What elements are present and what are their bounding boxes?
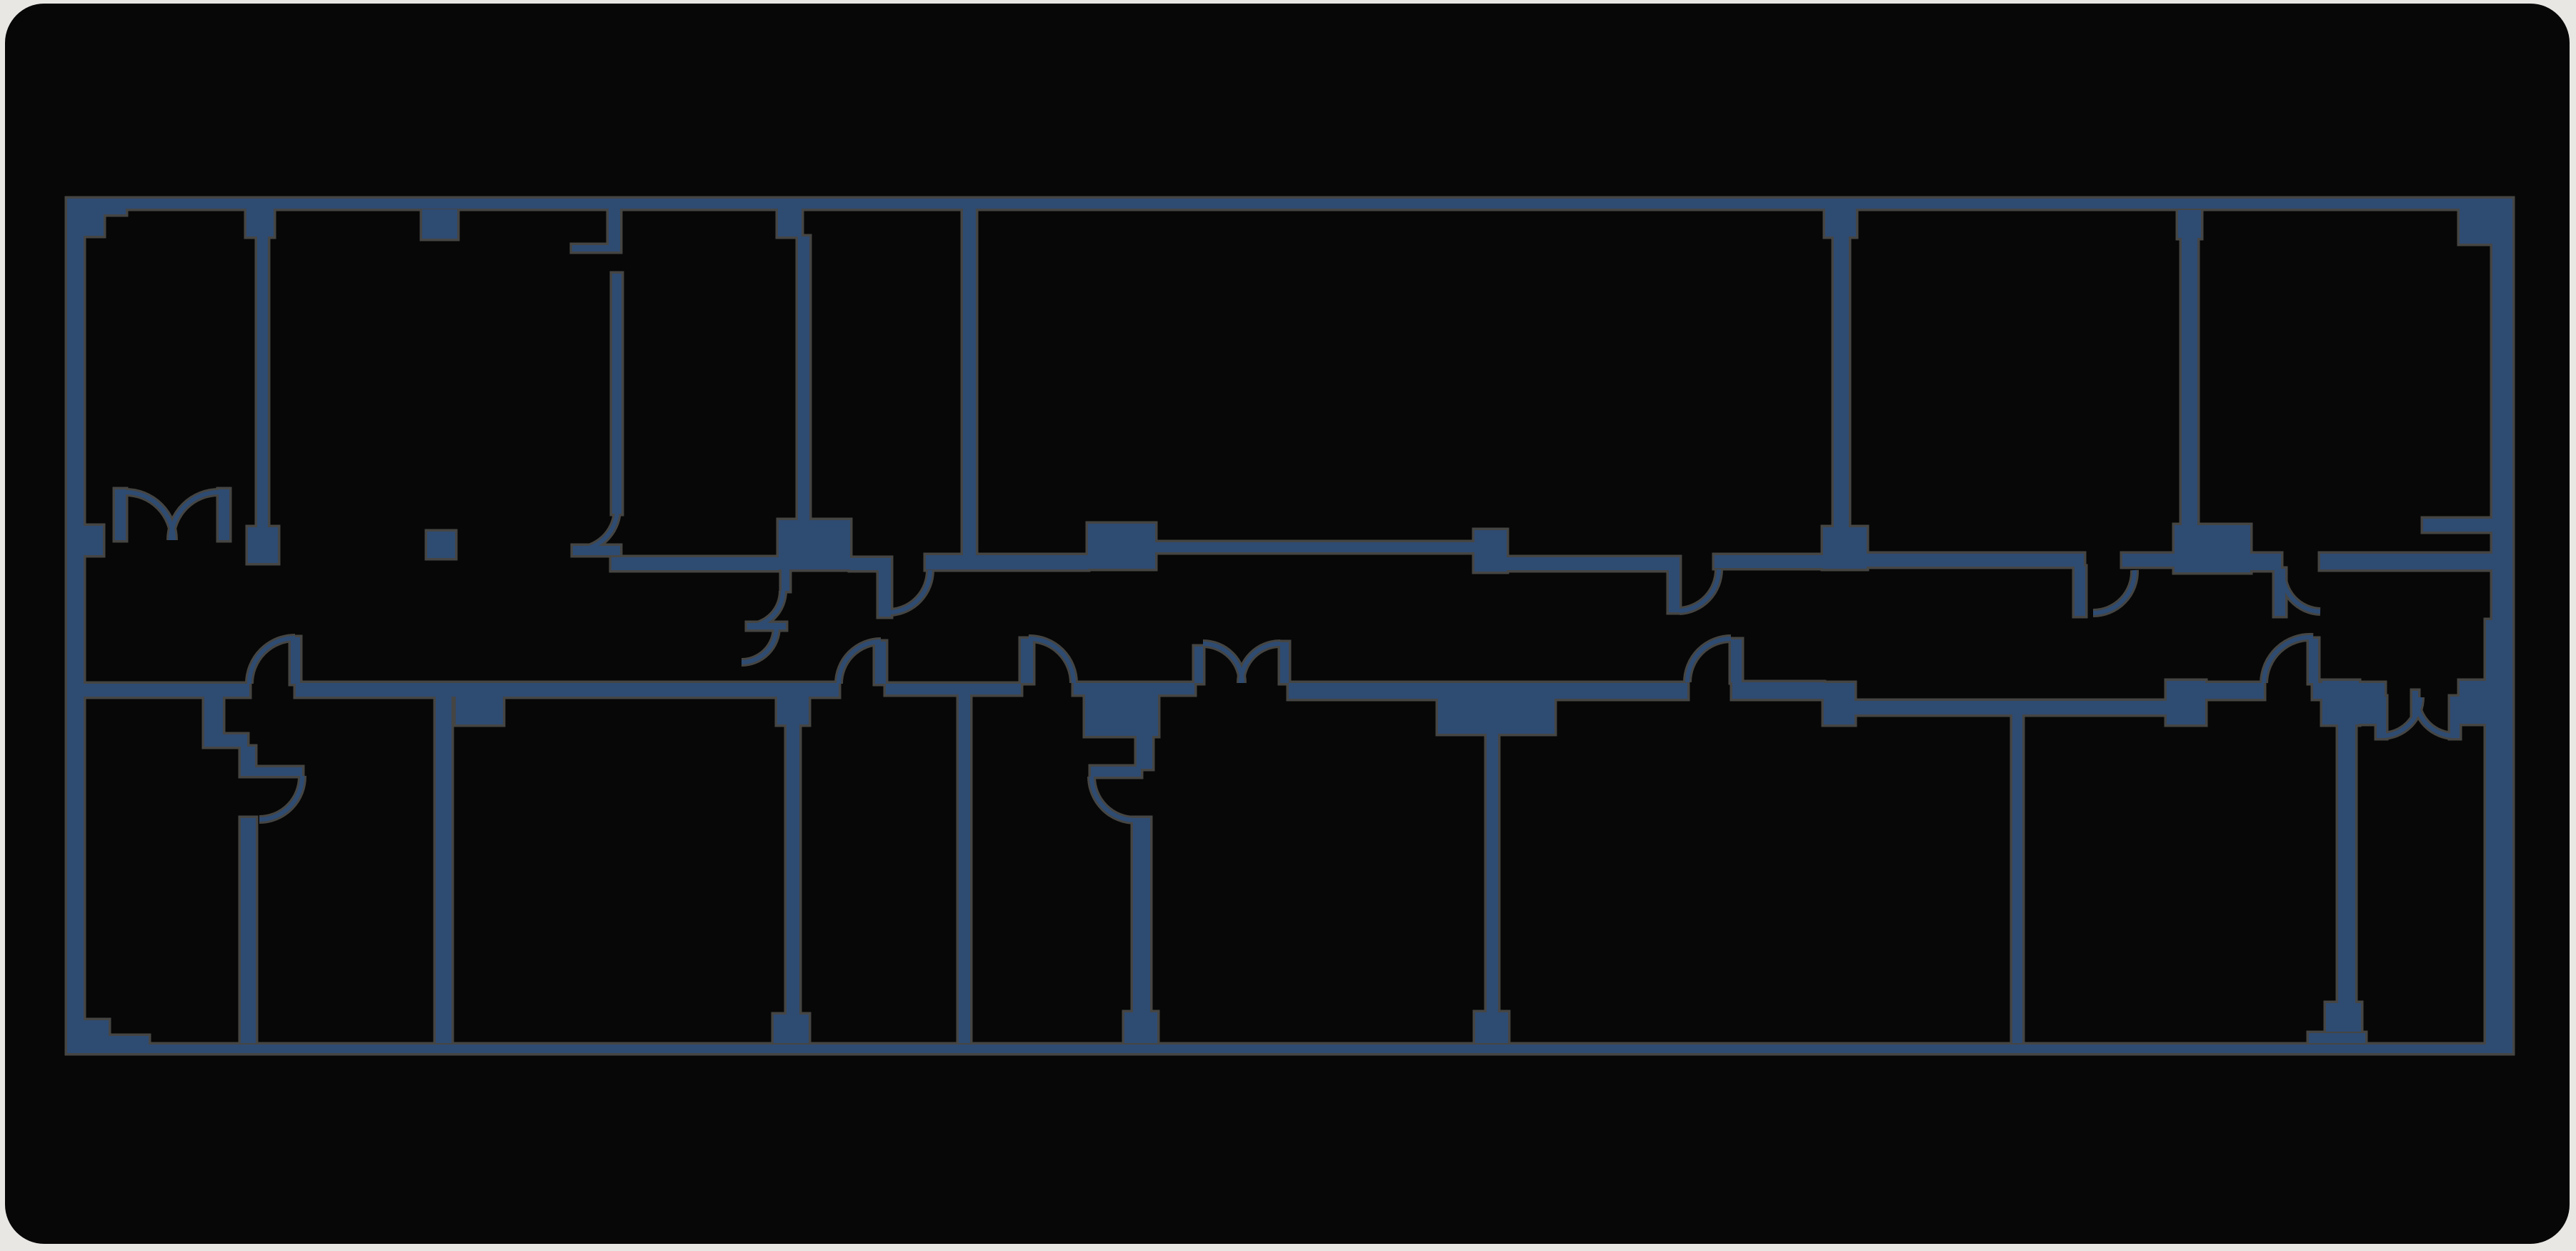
casing: vestibule V2 leaf bar bbox=[1091, 767, 1141, 777]
upper corridor wall E2 bbox=[2122, 554, 2175, 567]
casing: lower corridor wall J bbox=[2313, 683, 2359, 699]
right wall stub bbox=[2423, 519, 2492, 532]
casing: lower corridor wall B bbox=[296, 683, 839, 697]
partition P1 shaft bbox=[257, 236, 268, 529]
door DE leaf bbox=[2075, 567, 2085, 616]
door DE arc bbox=[2093, 570, 2135, 613]
double door DD2 right arc bbox=[1241, 644, 1280, 683]
casing: outer top wall bbox=[67, 199, 2512, 209]
door DF leaf bbox=[2275, 569, 2285, 616]
casing: lower corridor wall D bbox=[1074, 683, 1194, 694]
casing: partition B1 wall bbox=[241, 818, 256, 1043]
casing: door DF leaf bbox=[2275, 569, 2285, 616]
block B4 P5 bottom bbox=[1823, 527, 1867, 569]
casing: door DE arc bbox=[2093, 570, 2135, 613]
upper corridor wall D bbox=[1507, 557, 1679, 570]
outer top wall bbox=[67, 199, 2512, 209]
casing: column C-free bbox=[427, 532, 455, 558]
block B1 P3 bottom bbox=[779, 520, 850, 569]
casing: door DF arc bbox=[2282, 570, 2320, 612]
casing: vestibule V2 right wall bbox=[1137, 736, 1152, 769]
casing: door S leaf bar bbox=[747, 623, 786, 629]
casing: double door DD3 left arc bbox=[2382, 697, 2420, 736]
column C-top bbox=[422, 209, 457, 239]
casing: partition B3 bottom block bbox=[774, 1015, 809, 1043]
lower corridor wall H bbox=[1854, 701, 2167, 714]
casing: niche wall vertical bbox=[609, 209, 620, 251]
door S arc1 bbox=[747, 591, 783, 627]
block C3 bbox=[2167, 681, 2205, 724]
casing: block B3 upper bbox=[1474, 530, 1507, 572]
right wall lower widening bbox=[2486, 620, 2512, 1053]
upper corridor wall F bbox=[2250, 554, 2281, 570]
niche door stub bbox=[573, 546, 620, 555]
casing: double door DD1 left arc bbox=[126, 492, 174, 540]
niche main wall bbox=[612, 274, 621, 514]
lower corridor wall D bbox=[1074, 683, 1194, 694]
casing: lower corridor wall A bbox=[84, 684, 249, 697]
door DD arc bbox=[1679, 569, 1719, 611]
casing: top-left corner block b bbox=[67, 199, 104, 236]
double door DD3 left leaf bbox=[2377, 697, 2386, 738]
casing: double door DD2 right arc bbox=[1241, 644, 1280, 683]
casing: double door DD1 jamb stub bbox=[84, 526, 103, 555]
double door DD3 right arc bbox=[2416, 697, 2455, 736]
casing: lower corridor wall G bbox=[1732, 682, 1824, 699]
partition B2 wall bbox=[436, 697, 451, 1043]
casing: door J arc bbox=[891, 570, 930, 612]
upper corridor wall C bbox=[1155, 542, 1474, 552]
double door DD3 right leaf bbox=[2450, 697, 2460, 738]
door DB2 arc bbox=[839, 642, 881, 684]
casing: partition B8 wall bbox=[2338, 724, 2355, 1006]
door DB1 arc bbox=[259, 776, 302, 819]
casing: double door DD3 right leaf bbox=[2450, 697, 2460, 738]
casing: top-right corner block bbox=[2460, 200, 2512, 244]
double door DD1 right arc bbox=[171, 492, 219, 540]
block B3 upper bbox=[1474, 530, 1507, 572]
lower corridor wall A bbox=[84, 684, 249, 697]
casing: partition P5 top block bbox=[1825, 209, 1856, 236]
casing: upper corridor wall G bbox=[2320, 554, 2492, 569]
outer bottom wall bbox=[67, 1045, 2512, 1053]
top-left corner block a bbox=[67, 199, 126, 214]
casing: outer left wall bbox=[67, 199, 84, 1053]
casing: niche door stub bbox=[573, 546, 620, 555]
door DD leaf bbox=[1669, 568, 1679, 612]
door D3 arc bbox=[1687, 639, 1731, 682]
partition B6 wall bbox=[1487, 734, 1498, 1015]
casing: double door DD2 left arc bbox=[1203, 644, 1242, 683]
door D2 leaf bbox=[1021, 639, 1033, 683]
casing: partition B6 wall bbox=[1487, 734, 1498, 1015]
door S arc2 bbox=[742, 627, 777, 662]
partition P4 shaft bbox=[963, 209, 976, 555]
casing: door DB1 leaf bar bbox=[241, 767, 302, 776]
vestibule V2 leaf bar bbox=[1091, 767, 1141, 777]
outer right wall bbox=[2492, 200, 2512, 1053]
top-left corner block b bbox=[67, 199, 104, 236]
column C-free bbox=[427, 532, 455, 558]
vestibule V2 arc bbox=[1092, 777, 1135, 820]
casing: double door DD1 right arc bbox=[171, 492, 219, 540]
casing: lower corridor wall H bbox=[1854, 701, 2167, 714]
outer left wall bbox=[67, 199, 84, 1053]
casing: double door DD3 right arc bbox=[2416, 697, 2455, 736]
upper corridor wall B bbox=[926, 555, 1088, 569]
casing: vestibule V1 step v bbox=[204, 697, 223, 736]
casing: vestibule V1 step h bbox=[204, 734, 247, 747]
casing: top-left corner block a bbox=[67, 199, 126, 214]
partition P1 top block bbox=[246, 209, 274, 236]
casing: partition B4b wall bbox=[959, 694, 970, 1043]
casing: upper corridor wall F bbox=[2250, 554, 2281, 570]
partition B3 bottom block bbox=[774, 1015, 809, 1043]
upper corridor wall G bbox=[2320, 554, 2492, 569]
door DB2 leaf bbox=[875, 642, 886, 684]
door J drop leaf bbox=[879, 570, 891, 617]
door S stub bbox=[782, 569, 789, 591]
casing: upper corridor wall A2 bbox=[850, 558, 891, 570]
partition B8 bottom block bbox=[2326, 1003, 2361, 1032]
casing: door DL1 arc bbox=[249, 638, 295, 684]
partition P5 shaft bbox=[1834, 236, 1849, 527]
partition B3 wall bbox=[787, 724, 799, 1016]
casing: double door DD2 left jamb bbox=[1194, 647, 1203, 683]
double door DD2 left jamb bbox=[1194, 647, 1203, 683]
lower corridor wall J bbox=[2313, 683, 2359, 699]
lower corridor wall B bbox=[296, 683, 839, 697]
casing: niche wall horizontal bbox=[572, 245, 620, 251]
lower corridor wall K bbox=[2359, 683, 2385, 724]
casing: partition P3 top block bbox=[778, 209, 802, 236]
casing: upper corridor wall E2 bbox=[2122, 554, 2175, 567]
casing: door DL1 leaf bbox=[291, 637, 300, 684]
double door DD3 center stub bbox=[2412, 691, 2418, 717]
casing: door DD arc bbox=[1679, 569, 1719, 611]
casing: partition P4 shaft bbox=[963, 209, 976, 555]
partition B3 top block bbox=[777, 697, 809, 724]
casing: door D4 leaf bbox=[2309, 639, 2318, 683]
casing: block C1 bbox=[1438, 683, 1554, 734]
block C1 bbox=[1438, 683, 1554, 734]
casing: block C4 bbox=[2322, 681, 2359, 724]
niche door arc bbox=[576, 512, 617, 550]
casing: block C3 bbox=[2167, 681, 2205, 724]
partition B6 bottom block bbox=[1475, 1012, 1508, 1043]
casing: double door DD1 right leaf bbox=[219, 489, 229, 540]
upper corridor wall D2 bbox=[1714, 555, 1823, 568]
casing: right wall lower widening bbox=[2486, 620, 2512, 1053]
casing: partition P6 shaft bbox=[2182, 238, 2197, 525]
partition P3 top block bbox=[778, 209, 802, 236]
block b2cap bbox=[456, 697, 503, 724]
casing: door DD leaf bbox=[1669, 568, 1679, 612]
casing: upper corridor wall A bbox=[611, 557, 779, 570]
casing: upper corridor wall B bbox=[926, 555, 1088, 569]
wall casing layer (gray outline) bbox=[67, 199, 2512, 1053]
double door DD1 jamb stub bbox=[84, 526, 103, 555]
door DL1 leaf bbox=[291, 637, 300, 684]
casing: partition B6 bottom block bbox=[1475, 1012, 1508, 1043]
casing: upper corridor wall C bbox=[1155, 542, 1474, 552]
door D4 leaf bbox=[2309, 639, 2318, 683]
door J arc bbox=[891, 570, 930, 612]
double door DD3 left arc bbox=[2382, 697, 2420, 736]
casing: partition B3 wall bbox=[787, 724, 799, 1016]
casing: vestibule V1 step v2 bbox=[241, 747, 255, 769]
casing: bottom-left corner step a bbox=[67, 1020, 109, 1053]
double door DD1 left arc bbox=[126, 492, 174, 540]
lower corridor wall G bbox=[1732, 682, 1824, 699]
partition B5 bottom block bbox=[1124, 1012, 1157, 1043]
partition B1 wall bbox=[241, 818, 256, 1043]
casing: partition B3 top block bbox=[777, 697, 809, 724]
lower corridor wall I bbox=[2205, 683, 2264, 699]
door DB1 leaf bar bbox=[241, 767, 302, 776]
upper corridor wall E bbox=[1867, 554, 2084, 567]
door D3 leaf bbox=[1731, 639, 1742, 682]
casing: outer right wall bbox=[2492, 200, 2512, 1053]
casing: upper corridor wall D2 bbox=[1714, 555, 1823, 568]
casing: partition B5 wall bbox=[1133, 818, 1150, 1043]
double door DD2 left arc bbox=[1203, 644, 1242, 683]
block C-big bbox=[1085, 683, 1158, 736]
casing: upper corridor wall E bbox=[1867, 554, 2084, 567]
casing: partition P1 top block bbox=[246, 209, 274, 236]
door DL1 arc bbox=[249, 638, 295, 684]
casing: block B5 P6 bottom bbox=[2175, 525, 2250, 572]
block B2 upper bbox=[1088, 524, 1155, 569]
partition P1 bottom block bbox=[248, 527, 278, 563]
casing: lower corridor wall F bbox=[1554, 683, 1687, 699]
top-right corner block bbox=[2460, 200, 2512, 244]
casing: partition P5 shaft bbox=[1834, 236, 1849, 527]
vestibule V1 step v2 bbox=[241, 747, 255, 769]
door S leaf bar bbox=[747, 623, 786, 629]
casing: block C2 bbox=[1824, 683, 1854, 724]
casing: door J drop leaf bbox=[879, 570, 891, 617]
casing: partition B2 wall bbox=[436, 697, 451, 1043]
bottom-left corner step b bbox=[67, 1036, 149, 1053]
partition P6 top block bbox=[2178, 210, 2201, 238]
casing: partition P1 shaft bbox=[257, 236, 268, 529]
casing: partition B5 bottom block bbox=[1124, 1012, 1157, 1043]
casing: niche main wall bbox=[612, 274, 621, 514]
block C2 bbox=[1824, 683, 1854, 724]
block C5 bbox=[2460, 681, 2487, 724]
casing: block B4 P5 bottom bbox=[1823, 527, 1867, 569]
casing: upper corridor wall D bbox=[1507, 557, 1679, 570]
vestibule V1 step h bbox=[204, 734, 247, 747]
double door DD1 left leaf bbox=[115, 489, 126, 540]
double door DD1 right leaf bbox=[219, 489, 229, 540]
door D4 arc bbox=[2264, 637, 2313, 683]
casing: outer bottom wall bbox=[67, 1045, 2512, 1053]
casing: bottom-right wall step bbox=[2309, 1033, 2365, 1043]
lower corridor wall C bbox=[886, 684, 1021, 694]
upper corridor wall A2 bbox=[850, 558, 891, 570]
bottom-left corner step a bbox=[67, 1020, 109, 1053]
casing: lower corridor wall C bbox=[886, 684, 1021, 694]
niche wall horizontal bbox=[572, 245, 620, 251]
casing: double door DD1 left leaf bbox=[115, 489, 126, 540]
casing: bottom-left corner step b bbox=[67, 1036, 149, 1053]
casing: vestibule V2 arc bbox=[1092, 777, 1135, 820]
casing: door DB1 arc bbox=[259, 776, 302, 819]
casing: double door DD2 right jamb bbox=[1280, 642, 1289, 683]
casing: lower corridor wall E bbox=[1289, 683, 1438, 699]
casing: block B1 P3 bottom bbox=[779, 520, 850, 569]
casing: double door DD3 left leaf bbox=[2377, 697, 2386, 738]
casing: block C-big bbox=[1085, 683, 1158, 736]
casing: door D2 leaf bbox=[1021, 639, 1033, 683]
casing: block b2cap bbox=[456, 697, 503, 724]
casing: column C-top bbox=[422, 209, 457, 239]
casing: door S arc1 bbox=[747, 591, 783, 627]
casing: door DB2 leaf bbox=[875, 642, 886, 684]
casing: door DB2 arc bbox=[839, 642, 881, 684]
block C4 bbox=[2322, 681, 2359, 724]
casing: lower corridor wall K bbox=[2359, 683, 2385, 724]
casing: door D3 arc bbox=[1687, 639, 1731, 682]
lower corridor wall F bbox=[1554, 683, 1687, 699]
lower corridor wall E bbox=[1289, 683, 1438, 699]
partition B5 wall bbox=[1133, 818, 1150, 1043]
niche wall vertical bbox=[609, 209, 620, 251]
partition P3 shaft bbox=[798, 236, 809, 520]
vestibule V2 right wall bbox=[1137, 736, 1152, 769]
casing: partition B7 wall bbox=[2012, 714, 2022, 1043]
casing: partition P3 shaft bbox=[798, 236, 809, 520]
casing: right wall stub bbox=[2423, 519, 2492, 532]
casing: partition P1 bottom block bbox=[248, 527, 278, 563]
block B5 P6 bottom bbox=[2175, 525, 2250, 572]
casing: lower corridor wall I bbox=[2205, 683, 2264, 699]
casing: door S arc2 bbox=[742, 627, 777, 662]
wall ink layer (navy) bbox=[67, 199, 2512, 1053]
casing: door DE leaf bbox=[2075, 567, 2085, 616]
casing: door D3 leaf bbox=[1731, 639, 1742, 682]
casing: block C5 bbox=[2460, 681, 2487, 724]
casing: partition B8 bottom block bbox=[2326, 1003, 2361, 1032]
casing: niche door arc bbox=[576, 512, 617, 550]
upper corridor wall A bbox=[611, 557, 779, 570]
door D2 arc bbox=[1029, 639, 1074, 683]
bottom-right wall step bbox=[2309, 1033, 2365, 1043]
casing: door D2 arc bbox=[1029, 639, 1074, 683]
casing: door D4 arc bbox=[2264, 637, 2313, 683]
casing: partition P6 top block bbox=[2178, 210, 2201, 238]
partition B7 wall bbox=[2012, 714, 2022, 1043]
door DF arc bbox=[2282, 570, 2320, 612]
partition B8 wall bbox=[2338, 724, 2355, 1006]
casing: double door DD3 center stub bbox=[2412, 691, 2418, 717]
casing: door S stub bbox=[782, 569, 789, 591]
casing: block B2 upper bbox=[1088, 524, 1155, 569]
partition P6 shaft bbox=[2182, 238, 2197, 525]
double door DD2 right jamb bbox=[1280, 642, 1289, 683]
partition P5 top block bbox=[1825, 209, 1856, 236]
partition B4b wall bbox=[959, 694, 970, 1043]
vestibule V1 step v bbox=[204, 697, 223, 736]
